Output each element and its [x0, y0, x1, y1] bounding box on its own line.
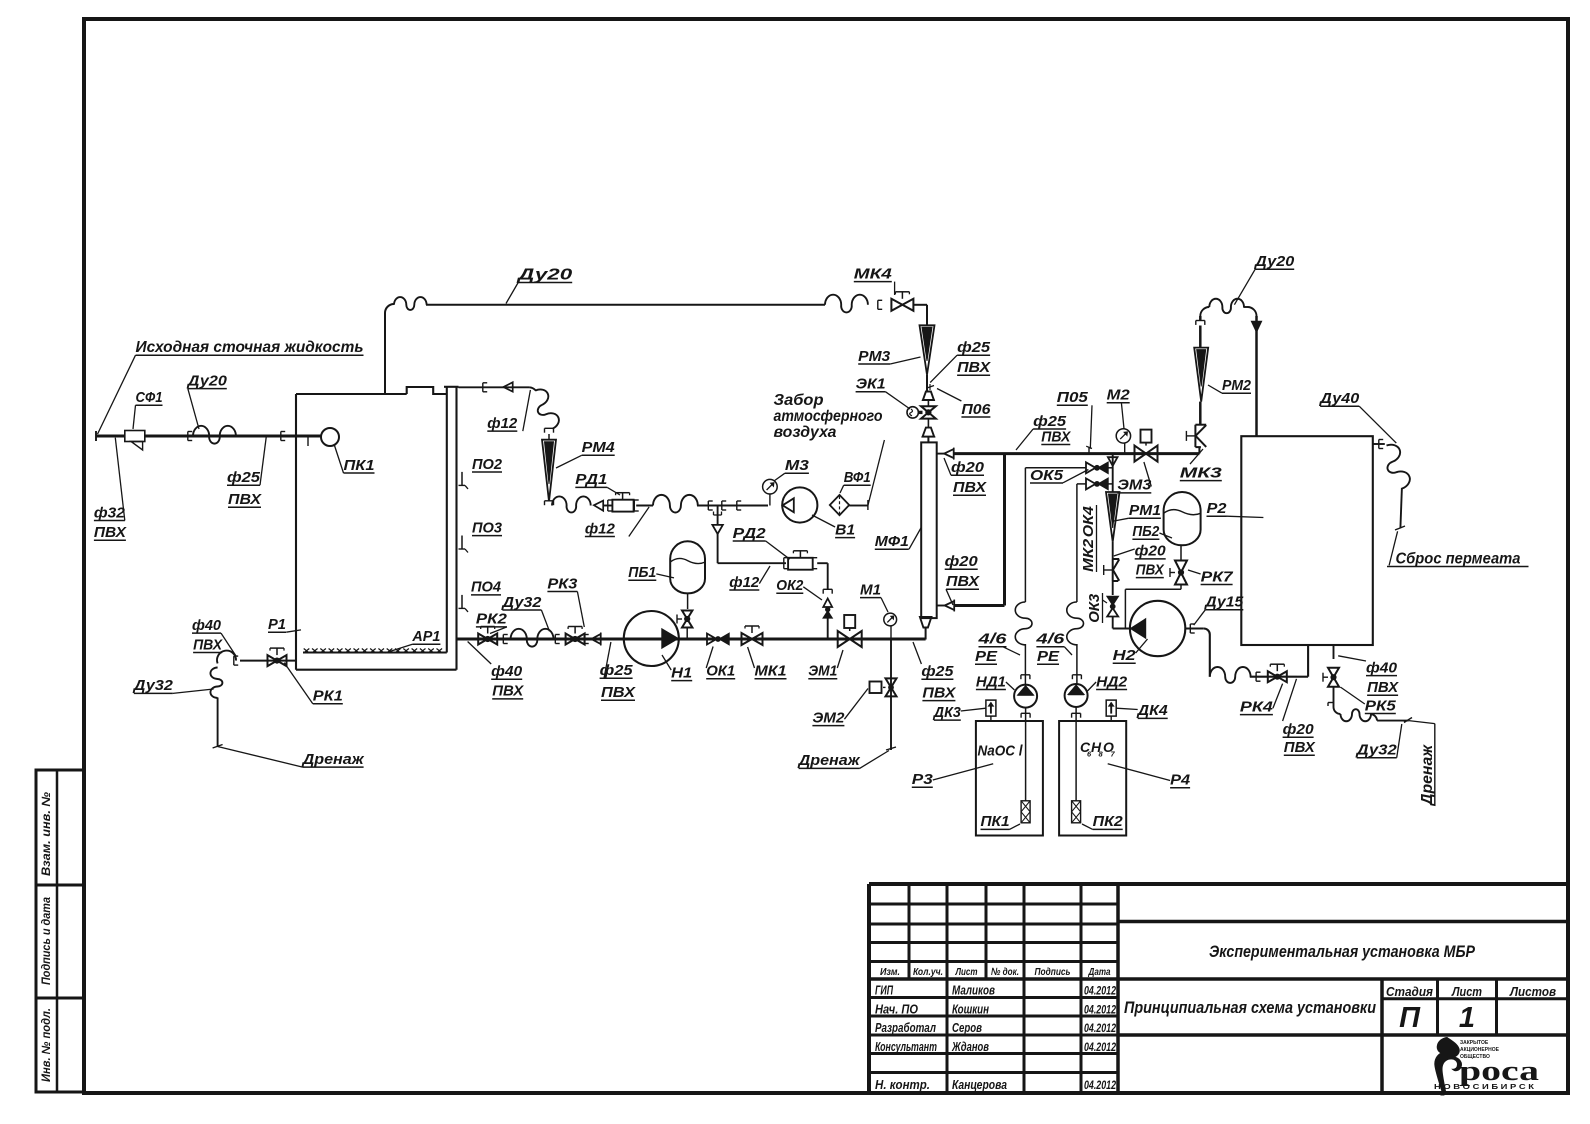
svg-text:ВФ1: ВФ1 — [844, 469, 871, 486]
svg-text:ф40: ф40 — [1366, 659, 1398, 676]
svg-text:Экспериментальная установка МБ: Экспериментальная установка МБР — [1209, 943, 1476, 961]
svg-text:П05: П05 — [1057, 389, 1089, 406]
svg-text:ОК5: ОК5 — [1030, 467, 1064, 484]
svg-text:Подпись: Подпись — [1035, 966, 1071, 978]
svg-text:ПВХ: ПВХ — [94, 524, 127, 541]
svg-text:РК3: РК3 — [547, 575, 578, 592]
svg-text:Дренаж: Дренаж — [1419, 743, 1436, 807]
svg-text:НД1: НД1 — [976, 673, 1006, 690]
svg-text:Ду20: Ду20 — [186, 372, 228, 389]
svg-text:РЕ: РЕ — [975, 648, 998, 665]
svg-text:Лист: Лист — [955, 966, 978, 978]
svg-text:ПВХ: ПВХ — [492, 683, 524, 700]
svg-text:РМ3: РМ3 — [858, 348, 891, 365]
svg-text:ф25: ф25 — [227, 469, 261, 486]
svg-text:Разработал: Разработал — [875, 1021, 936, 1035]
svg-text:ПО4: ПО4 — [471, 579, 502, 596]
svg-text:ПК1: ПК1 — [344, 457, 375, 474]
svg-text:ОК3: ОК3 — [1086, 593, 1103, 623]
svg-text:МК3: МК3 — [1180, 464, 1223, 481]
svg-text:Кол.уч.: Кол.уч. — [913, 966, 943, 978]
svg-text:04.2012: 04.2012 — [1084, 1021, 1116, 1035]
svg-text:РМ4: РМ4 — [582, 439, 616, 456]
svg-text:Ду20: Ду20 — [1253, 253, 1295, 270]
svg-text:ф40: ф40 — [491, 663, 523, 680]
svg-text:МК1: МК1 — [755, 663, 787, 680]
svg-text:ф40: ф40 — [192, 617, 222, 634]
svg-text:ПВХ: ПВХ — [601, 684, 636, 701]
svg-text:РК4: РК4 — [1240, 698, 1274, 715]
svg-text:ЭК1: ЭК1 — [856, 376, 886, 393]
svg-text:ОК2: ОК2 — [776, 577, 804, 594]
svg-text:4/6: 4/6 — [977, 631, 1007, 648]
svg-text:В1: В1 — [835, 521, 855, 538]
svg-text:ф12: ф12 — [585, 520, 616, 537]
svg-text:Дренаж: Дренаж — [300, 751, 364, 768]
svg-text:Ду40: Ду40 — [1318, 390, 1360, 407]
svg-text:РК7: РК7 — [1201, 568, 1234, 585]
svg-text:РЕ: РЕ — [1037, 648, 1060, 665]
svg-text:ДК3: ДК3 — [932, 704, 962, 721]
svg-text:Принципиальная схема установки: Принципиальная схема установки — [1124, 999, 1376, 1017]
svg-text:Ду15: Ду15 — [1203, 594, 1244, 611]
svg-text:ф20: ф20 — [945, 553, 979, 570]
svg-text:М2: М2 — [1107, 387, 1131, 404]
svg-text:Листов: Листов — [1509, 984, 1556, 999]
svg-text:ф20: ф20 — [1283, 721, 1315, 738]
svg-text:Нач. ПО: Нач. ПО — [875, 1002, 918, 1016]
svg-text:Сброс пермеата: Сброс пермеата — [1396, 550, 1521, 567]
svg-text:М1: М1 — [860, 581, 881, 598]
svg-text:04.2012: 04.2012 — [1084, 984, 1116, 998]
svg-text:04.2012: 04.2012 — [1084, 1040, 1116, 1054]
svg-text:воздуха: воздуха — [774, 424, 837, 441]
svg-text:СФ1: СФ1 — [136, 389, 163, 406]
svg-text:ф25: ф25 — [921, 663, 954, 680]
svg-text:ГИП: ГИП — [875, 984, 894, 998]
svg-text:Лист: Лист — [1451, 984, 1482, 999]
svg-text:МК2: МК2 — [1080, 538, 1097, 572]
svg-text:№ док.: № док. — [991, 966, 1019, 978]
svg-text:П: П — [1399, 1002, 1421, 1034]
svg-text:04.2012: 04.2012 — [1084, 1078, 1116, 1092]
svg-text:Стадия: Стадия — [1386, 984, 1433, 999]
svg-text:МФ1: МФ1 — [875, 533, 909, 550]
svg-text:ЭМ3: ЭМ3 — [1117, 477, 1152, 494]
svg-text:ПВХ: ПВХ — [1136, 561, 1165, 578]
svg-text:АР1: АР1 — [411, 628, 440, 645]
svg-text:М3: М3 — [785, 457, 810, 474]
svg-text:Р3: Р3 — [912, 771, 934, 788]
svg-text:ПО3: ПО3 — [472, 519, 503, 536]
svg-text:РД1: РД1 — [575, 471, 607, 488]
svg-text:Ду32: Ду32 — [1354, 742, 1397, 759]
svg-text:ПБ1: ПБ1 — [628, 564, 656, 581]
svg-text:ф25: ф25 — [1033, 413, 1067, 430]
svg-text:ЭМ1: ЭМ1 — [808, 663, 837, 680]
svg-text:ф32: ф32 — [94, 504, 126, 521]
svg-text:ПВХ: ПВХ — [946, 573, 980, 590]
svg-text:Изм.: Изм. — [880, 966, 900, 978]
svg-text:Н О В О С И Б И Р С К: Н О В О С И Б И Р С К — [1434, 1084, 1535, 1091]
svg-text:Серов: Серов — [952, 1021, 982, 1035]
svg-text:1: 1 — [1459, 1002, 1475, 1034]
svg-text:Ду20: Ду20 — [515, 266, 572, 283]
svg-text:ПК2: ПК2 — [1093, 813, 1124, 830]
svg-text:атмосферного: атмосферного — [774, 408, 883, 425]
svg-text:Дренаж: Дренаж — [796, 752, 860, 769]
svg-text:П06: П06 — [961, 401, 991, 418]
svg-text:ф12: ф12 — [487, 415, 518, 432]
svg-text:Р2: Р2 — [1207, 500, 1228, 517]
svg-text:ф12: ф12 — [729, 574, 760, 591]
svg-text:ПВХ: ПВХ — [957, 359, 991, 376]
svg-text:ДК4: ДК4 — [1136, 702, 1169, 719]
svg-text:ПВХ: ПВХ — [1041, 428, 1071, 445]
svg-text:Подпись и дата: Подпись и дата — [39, 897, 53, 985]
svg-text:МК4: МК4 — [854, 265, 893, 282]
svg-text:ф20: ф20 — [951, 459, 985, 476]
svg-text:Жданов: Жданов — [951, 1040, 989, 1054]
svg-text:04.2012: 04.2012 — [1084, 1002, 1116, 1016]
svg-text:ОК4: ОК4 — [1080, 506, 1097, 538]
svg-text:Кошкин: Кошкин — [952, 1002, 989, 1016]
svg-text:Дата: Дата — [1088, 966, 1111, 978]
svg-text:Ду32: Ду32 — [500, 594, 542, 611]
svg-text:РД2: РД2 — [733, 525, 767, 542]
svg-text:ПВХ: ПВХ — [193, 636, 223, 653]
svg-text:ОК1: ОК1 — [706, 663, 735, 680]
svg-text:ф20: ф20 — [1135, 543, 1167, 560]
svg-text:ЗАКРЫТОЕ: ЗАКРЫТОЕ — [1460, 1040, 1489, 1046]
svg-text:Инв. № подл.: Инв. № подл. — [39, 1008, 53, 1082]
svg-text:НД2: НД2 — [1096, 673, 1128, 690]
svg-text:ПВХ: ПВХ — [1284, 739, 1316, 756]
svg-text:РК1: РК1 — [313, 688, 343, 705]
svg-text:NaOC l: NaOC l — [978, 743, 1024, 760]
svg-text:ЭМ2: ЭМ2 — [812, 709, 845, 726]
svg-text:ПК1: ПК1 — [981, 813, 1010, 830]
svg-text:АКЦИОНЕРНОЕ: АКЦИОНЕРНОЕ — [1460, 1047, 1500, 1053]
svg-text:Канцерова: Канцерова — [952, 1078, 1007, 1092]
svg-text:Н. контр.: Н. контр. — [875, 1078, 930, 1092]
svg-text:Р4: Р4 — [1170, 772, 1191, 789]
svg-text:ПВХ: ПВХ — [922, 684, 956, 701]
svg-text:4/6: 4/6 — [1035, 631, 1065, 648]
svg-text:ПБ2: ПБ2 — [1132, 523, 1160, 540]
svg-text:ПВХ: ПВХ — [228, 491, 262, 508]
svg-text:РМ2: РМ2 — [1222, 377, 1252, 394]
svg-text:Ду32: Ду32 — [132, 677, 174, 694]
svg-text:Р1: Р1 — [268, 616, 286, 633]
svg-text:Взам. инв. №: Взам. инв. № — [39, 792, 53, 876]
svg-text:роса: роса — [1459, 1056, 1539, 1087]
svg-text:Н2: Н2 — [1113, 647, 1137, 664]
svg-text:РК2: РК2 — [476, 611, 508, 628]
svg-text:ПВХ: ПВХ — [953, 479, 987, 496]
svg-text:ПО2: ПО2 — [472, 456, 503, 473]
svg-text:ПВХ: ПВХ — [1367, 679, 1399, 696]
svg-text:Н1: Н1 — [671, 664, 692, 681]
svg-text:Консультант: Консультант — [875, 1040, 937, 1054]
svg-text:ф25: ф25 — [957, 339, 991, 356]
svg-text:Исходная сточная жидкость: Исходная сточная жидкость — [136, 339, 364, 356]
svg-text:Забор: Забор — [774, 392, 824, 409]
svg-text:РК5: РК5 — [1365, 697, 1397, 714]
svg-text:РМ1: РМ1 — [1129, 502, 1161, 519]
svg-text:Маликов: Маликов — [952, 984, 995, 998]
